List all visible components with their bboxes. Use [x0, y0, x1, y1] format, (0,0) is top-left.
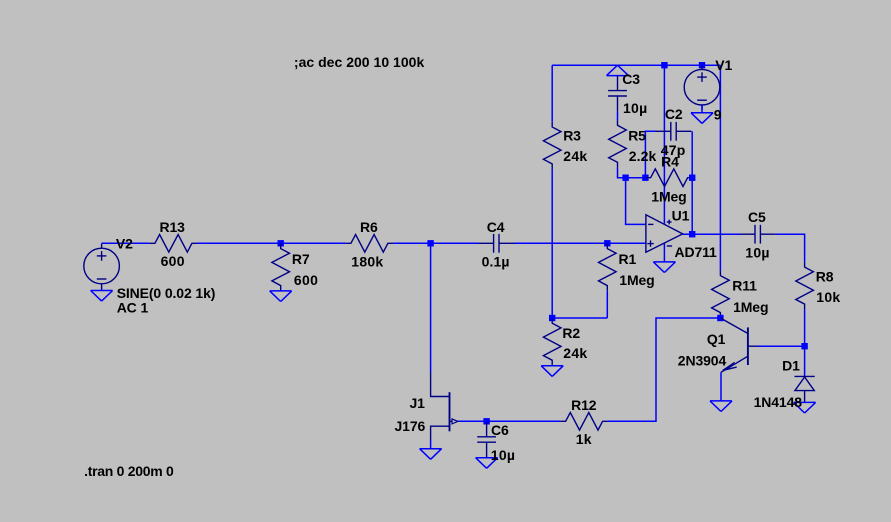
wire C2 right leg — [691, 131, 693, 177]
diode D1 — [795, 376, 815, 402]
node collector — [717, 315, 723, 321]
ground C3 (inverted) — [607, 65, 629, 75]
resistor R3 — [543, 122, 561, 170]
node rail/V+ — [661, 62, 667, 68]
svg-text:R12: R12 — [571, 397, 597, 413]
svg-text:R13: R13 — [160, 219, 186, 235]
svg-text:R3: R3 — [563, 128, 581, 144]
svg-text:10k: 10k — [816, 289, 840, 305]
wire C5 to R8 — [776, 234, 805, 262]
svg-text:2.2k: 2.2k — [629, 148, 657, 164]
svg-text:C3: C3 — [622, 71, 640, 87]
resistor R13 — [150, 235, 198, 253]
svg-text:1Meg: 1Meg — [651, 189, 686, 205]
resistor R7 — [272, 243, 290, 290]
svg-text:24k: 24k — [563, 345, 587, 361]
ground C6 — [476, 457, 498, 468]
node rail/V1 — [699, 62, 705, 68]
capacitor C6 — [477, 422, 496, 458]
ground op-amp — [653, 262, 675, 273]
node C4 — [427, 240, 433, 246]
svg-text:C6: C6 — [491, 422, 509, 438]
capacitor C2 — [656, 122, 692, 141]
wire C2 left leg — [645, 131, 655, 177]
svg-text:D1: D1 — [782, 357, 800, 373]
svg-text:R4: R4 — [661, 154, 679, 170]
wire C4 to op-amp +in — [514, 242, 646, 244]
svg-text:J176: J176 — [395, 418, 426, 434]
resistor R12 — [560, 413, 608, 431]
wire opamp V- to ground — [663, 243, 665, 262]
wire J1 gate to C6 node — [458, 420, 487, 422]
svg-text:SINE(0 0.02 1k): SINE(0 0.02 1k) — [117, 285, 216, 301]
svg-text:1N4148: 1N4148 — [754, 394, 803, 410]
wire Q1 emitter to ground — [720, 372, 722, 401]
node op-amp output — [689, 231, 695, 237]
svg-text:1k: 1k — [576, 431, 592, 447]
svg-text:V1: V1 — [715, 57, 732, 73]
svg-text:R2: R2 — [562, 325, 580, 341]
ground R2 — [541, 366, 563, 377]
wire Q1 base — [758, 345, 805, 347]
svg-text:R11: R11 — [732, 278, 757, 294]
wire op-amp out to C5 — [683, 233, 740, 235]
svg-text:Q1: Q1 — [707, 331, 726, 347]
svg-text:24k: 24k — [563, 148, 587, 164]
svg-text:600: 600 — [161, 253, 185, 269]
resistor R8 — [796, 262, 814, 310]
svg-text:;ac dec 200 10 100k: ;ac dec 200 10 100k — [294, 54, 425, 70]
svg-text:10µ: 10µ — [491, 447, 515, 463]
wire R5 to R4 node — [618, 168, 646, 178]
wire R2 node to R1 — [552, 317, 607, 319]
ground V1 — [691, 105, 713, 123]
ground D1 — [794, 402, 816, 413]
node base — [801, 343, 807, 349]
resistor R11 — [712, 270, 730, 318]
svg-text:V2: V2 — [116, 236, 133, 252]
svg-text:J1: J1 — [410, 395, 426, 411]
svg-text:1Meg: 1Meg — [619, 272, 654, 288]
svg-text:U1: U1 — [672, 207, 690, 223]
resistor R4 — [645, 169, 693, 187]
node +in/R1 — [604, 240, 610, 246]
svg-text:C2: C2 — [665, 106, 683, 122]
svg-text:C5: C5 — [748, 209, 766, 225]
wire inv node drop — [626, 178, 646, 225]
resistor R1 — [599, 243, 617, 290]
svg-text:R8: R8 — [816, 269, 834, 285]
svg-text:R5: R5 — [628, 127, 646, 143]
svg-text:C4: C4 — [487, 219, 505, 235]
capacitor C3 — [608, 75, 627, 111]
ground J1 — [420, 449, 442, 460]
svg-text:600: 600 — [294, 272, 318, 288]
wire C3 to R5 — [617, 111, 619, 120]
wire R3 top — [551, 65, 553, 122]
svg-text:10µ: 10µ — [745, 245, 769, 261]
wire R12 riser — [608, 318, 721, 421]
ground V2 — [91, 289, 113, 302]
capacitor C5 — [740, 225, 776, 244]
svg-text:1Meg: 1Meg — [733, 299, 768, 315]
jfet J1 — [431, 372, 458, 449]
svg-text:10µ: 10µ — [623, 100, 647, 116]
node inverting input — [622, 175, 628, 181]
svg-text:2N3904: 2N3904 — [678, 352, 727, 368]
svg-text:180k: 180k — [351, 253, 383, 269]
node R2 — [549, 315, 555, 321]
ground R7 — [270, 291, 292, 302]
wire R3 to R2 node — [551, 169, 553, 318]
wire opamp V+ drop — [663, 65, 665, 224]
ground Q1 — [710, 401, 732, 412]
resistor R5 — [609, 120, 627, 168]
resistor R2 — [543, 318, 561, 366]
svg-text:0.1µ: 0.1µ — [482, 253, 510, 269]
voltage source V1 — [684, 65, 720, 110]
wire R13 to R6 — [197, 242, 346, 244]
wire R6 to C4 — [393, 242, 478, 244]
wire base node to D1 — [804, 346, 806, 376]
wire R1 bottom — [606, 291, 608, 318]
node C6 — [483, 418, 489, 424]
svg-text:AC 1: AC 1 — [117, 300, 149, 316]
svg-text:.tran 0 200m 0: .tran 0 200m 0 — [84, 463, 174, 479]
wire rail down to R11 — [719, 65, 721, 270]
wire R8 to base node — [804, 309, 806, 346]
svg-text:AD711: AD711 — [675, 244, 718, 260]
node R7 — [278, 240, 284, 246]
capacitor C4 — [478, 234, 514, 253]
wire C4 node to J1 — [430, 243, 432, 372]
voltage source V2 — [84, 244, 120, 289]
op-amp U1 — [646, 215, 683, 252]
wire C6 node to R12 — [487, 420, 561, 422]
svg-text:R6: R6 — [360, 219, 378, 235]
node R4 left — [642, 175, 648, 181]
svg-text:R7: R7 — [292, 251, 310, 267]
transistor Q1 — [720, 318, 757, 372]
wire V2 to R13 — [102, 242, 150, 244]
wire feedback riser — [691, 178, 693, 235]
resistor R6 — [346, 235, 394, 253]
node R4 right — [689, 175, 695, 181]
wire R11 bottom — [719, 317, 721, 319]
svg-text:9: 9 — [714, 107, 722, 123]
svg-text:R1: R1 — [619, 251, 637, 267]
wire top rail — [552, 64, 720, 66]
